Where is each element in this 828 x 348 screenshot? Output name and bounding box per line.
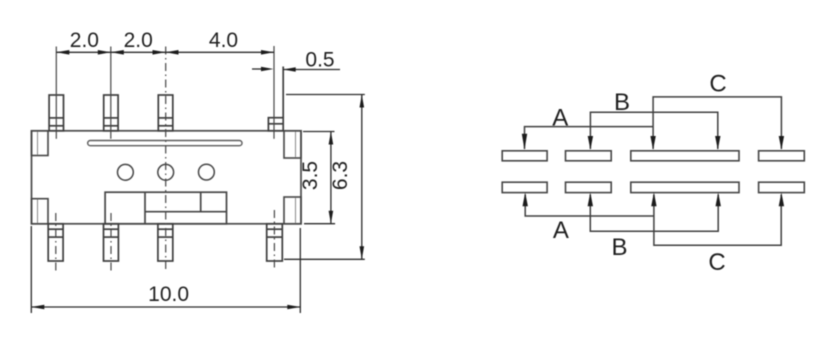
10.0 dimension bbox=[31, 226, 300, 313]
bottom pin 4 bbox=[267, 224, 283, 261]
arrow 0.5 left bbox=[261, 67, 274, 72]
connection B top bbox=[590, 112, 717, 149]
svg-text:A: A bbox=[553, 217, 569, 244]
arrow 6.3 bottom bbox=[360, 246, 365, 259]
arrow 0.5 right bbox=[283, 67, 296, 72]
arrow 4.0 left at pin3 bbox=[166, 50, 179, 55]
svg-text:6.3: 6.3 bbox=[329, 161, 352, 190]
arrow second 2.0 left at pin2 bbox=[111, 50, 124, 55]
connection C top bbox=[653, 97, 781, 149]
arrow up A left bbox=[523, 192, 528, 206]
arrow down B right bbox=[715, 136, 720, 150]
arrow up C right bbox=[779, 192, 784, 206]
actuator slot bbox=[88, 141, 242, 146]
pad bottom 4 bbox=[759, 182, 805, 192]
slider block bbox=[105, 192, 226, 224]
arrow 10.0 right bbox=[287, 305, 300, 310]
arrow up B left bbox=[588, 192, 593, 206]
0.5 dimension arrows and leader bbox=[252, 68, 340, 71]
pad bottom 2 bbox=[566, 182, 612, 192]
arrow up A-right/C-left bbox=[651, 192, 656, 206]
switch body outline bbox=[32, 131, 302, 224]
6.3 dimension bbox=[284, 95, 365, 260]
arrow up B right bbox=[716, 192, 721, 206]
svg-text:B: B bbox=[614, 89, 630, 116]
bottom pin 3 bbox=[158, 224, 173, 261]
arrow down A-right/C-left bbox=[650, 136, 655, 150]
main vertical centerline (dash-dot) bbox=[165, 47, 167, 272]
centerline bottom pin 1 (dash-dot) bbox=[55, 213, 57, 271]
arrow 2.0 right at pin2 bbox=[98, 50, 111, 55]
arrow 4.0 right at pin4 bbox=[261, 50, 274, 55]
connection B bottom bbox=[590, 195, 718, 232]
svg-text:C: C bbox=[708, 249, 725, 276]
arrow 3.5 top bbox=[329, 132, 334, 145]
bottom pin 2 bbox=[104, 224, 119, 261]
hole circle 1 bbox=[118, 164, 134, 180]
svg-text:2.0: 2.0 bbox=[70, 29, 99, 52]
arrow 6.3 top bbox=[360, 95, 365, 108]
hole circle 3 bbox=[199, 164, 215, 180]
top pin 1 bbox=[49, 95, 63, 131]
connection A bottom bbox=[525, 195, 654, 217]
svg-text:B: B bbox=[611, 234, 627, 261]
top pin 2 bbox=[104, 95, 118, 131]
arrow second 2.0 right at pin3 bbox=[153, 50, 166, 55]
svg-text:3.5: 3.5 bbox=[299, 161, 322, 190]
svg-text:10.0: 10.0 bbox=[148, 283, 189, 306]
svg-text:A: A bbox=[552, 105, 568, 132]
arrow 10.0 left bbox=[31, 305, 44, 310]
svg-text:4.0: 4.0 bbox=[209, 29, 238, 52]
svg-text:C: C bbox=[709, 70, 726, 97]
arrow down A left bbox=[522, 134, 527, 150]
dimension arrowheads bbox=[31, 50, 364, 309]
pad bottom 3 (long) bbox=[631, 182, 739, 192]
centerline bottom pin 4 (dash-dot) bbox=[273, 210, 275, 271]
top pin 3 bbox=[158, 95, 173, 131]
centerline bottom pin 2 (dash-dot) bbox=[110, 213, 112, 271]
arrow down B left bbox=[588, 136, 593, 150]
mounting tab top-left bbox=[32, 131, 49, 156]
3.5 dimension bbox=[303, 132, 335, 224]
mounting tab bottom-left bbox=[32, 199, 49, 224]
centerline pin 2 bbox=[110, 47, 112, 139]
pad top 2 bbox=[566, 151, 612, 161]
top pin 4 bbox=[268, 67, 283, 131]
mounting tab top-right bbox=[284, 131, 301, 158]
hole circle 2 bbox=[158, 164, 174, 180]
pad top 1 bbox=[502, 151, 547, 161]
centerline pin 1 bbox=[55, 47, 57, 139]
connection C bottom bbox=[654, 195, 781, 246]
connection A top bbox=[525, 127, 654, 149]
pad bottom 1 bbox=[502, 182, 547, 192]
centerline pin 4 top bbox=[273, 46, 275, 139]
arrow 2.0 left bbox=[56, 50, 69, 55]
pad top 3 (long) bbox=[631, 151, 739, 161]
connection arrowheads bbox=[522, 134, 784, 206]
svg-text:2.0: 2.0 bbox=[124, 29, 153, 52]
pad top 4 bbox=[759, 151, 805, 161]
arrow down C right bbox=[779, 136, 784, 150]
svg-text:0.5: 0.5 bbox=[305, 49, 334, 72]
mounting tab bottom-right bbox=[284, 197, 301, 224]
dimension line 2.0/2.0/4.0 bbox=[56, 51, 274, 53]
arrow 3.5 bottom bbox=[329, 211, 334, 224]
bottom pin 1 bbox=[48, 224, 63, 261]
